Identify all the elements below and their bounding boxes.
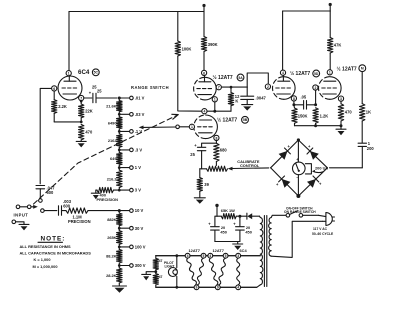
node divider top junction — [118, 97, 121, 100]
tube V3 half 12AT7 — [284, 77, 295, 100]
pin 6 of V2 (plate) — [202, 70, 207, 75]
capacitor .0047 to ground — [246, 87, 248, 96]
svg-text:5C: 5C — [94, 71, 99, 75]
node bridge top corner — [297, 138, 300, 141]
svg-text:ALL CAPACITANCE IN MICROFAR: ALL CAPACITANCE IN MICROFARADS — [20, 251, 92, 256]
wire V5 cathode down — [215, 141, 217, 144]
wire bus V5 plate / V2 cathode — [207, 110, 231, 112]
svg-text:65K 1W: 65K 1W — [221, 208, 235, 213]
svg-text:2162: 2162 — [108, 138, 117, 143]
svg-text:ON RANGE SWITCH: ON RANGE SWITCH — [284, 210, 316, 214]
resistor 21.6K (divider) — [118, 98, 120, 101]
switch contact (DC position) on lower row — [41, 209, 45, 213]
svg-text:300 V: 300 V — [135, 263, 146, 268]
resistor 88.2K (lower divider) — [118, 247, 120, 250]
capacitor .003 600 (series input) — [58, 206, 60, 216]
pin 2 of V3 (grid) — [265, 84, 270, 89]
wire 6C4 plate feed from B+ rail — [68, 12, 70, 71]
pin 4 of V3 (plate) — [280, 70, 285, 75]
svg-text:3: 3 — [237, 254, 239, 258]
svg-text:4: 4 — [237, 286, 239, 290]
node B+ right rail junction dot — [329, 6, 331, 12]
svg-text:4: 4 — [282, 71, 284, 75]
svg-text:.01 V: .01 V — [135, 96, 145, 101]
wire plate load 100K from B+ rail — [177, 12, 179, 42]
wire primary bottom return loop — [271, 221, 322, 257]
resistor 100K — [175, 41, 180, 56]
svg-text:6490: 6490 — [108, 120, 117, 125]
svg-text:265K: 265K — [107, 235, 116, 240]
wire V2 cathode to coupling — [221, 86, 247, 88]
svg-text:3 V: 3 V — [135, 188, 141, 193]
heater bottom bus — [156, 286, 257, 288]
designator 5A for V2 — [237, 74, 244, 81]
svg-text:5B: 5B — [243, 118, 248, 122]
wire bridge top to meter + — [297, 140, 299, 162]
pin 7 of 6C4 (cathode, right) — [79, 95, 84, 100]
svg-text:7: 7 — [80, 96, 82, 100]
resistor 12K (V2 cathode) — [230, 87, 232, 92]
capacitor .047 600 (AC input coupling) — [36, 185, 45, 187]
resistor 216.2 (divider) — [118, 168, 120, 171]
svg-text:30 V: 30 V — [135, 226, 144, 231]
tap 3 V of range switch — [119, 189, 129, 191]
capacitor 25 electrolytic bypass — [202, 143, 217, 147]
transformer primary winding (right) — [269, 218, 272, 257]
svg-text:6C4: 6C4 — [240, 248, 248, 253]
input ground terminal — [12, 220, 16, 224]
pin 1 of 6C4 (plate, top) — [66, 71, 71, 76]
svg-text:8: 8 — [293, 97, 295, 101]
wire V2 pin1 down to bus — [214, 102, 216, 111]
resistor 390K — [201, 37, 206, 52]
tap .01 V of range switch — [119, 97, 129, 99]
wire output node down from M — [361, 72, 363, 104]
wire cap to bridge right corner — [330, 167, 363, 169]
svg-text:3: 3 — [340, 97, 342, 101]
wire secondary top to rectifier — [259, 216, 262, 217]
meter bracket and label 200 UA — [305, 164, 311, 174]
svg-text:117 V AC: 117 V AC — [313, 227, 328, 231]
pin 5 heater V first — [201, 253, 206, 258]
svg-text:9: 9 — [217, 286, 219, 290]
node B+ riser dot — [215, 204, 218, 207]
svg-text:25: 25 — [190, 152, 195, 157]
bridge rectifier diamond — [298, 140, 327, 168]
svg-text:47: 47 — [159, 259, 163, 263]
wire B+ rail right — [283, 10, 331, 12]
svg-text:470: 470 — [85, 129, 93, 134]
ground below .0047 — [242, 104, 253, 106]
svg-text:LIGHT: LIGHT — [165, 265, 175, 269]
tap 100 V of range switch — [119, 246, 129, 248]
wire V2 cathode jog to V3 grid — [247, 73, 268, 87]
svg-text:½ 12AT7: ½ 12AT7 — [217, 116, 237, 123]
pin of V5 plate (top) — [202, 109, 207, 114]
node hum balance center tap — [155, 270, 157, 274]
ground below 39 — [199, 191, 201, 197]
svg-text:.3 V: .3 V — [135, 148, 143, 153]
pin 8 of V3 (cathode) — [291, 96, 296, 101]
heater top bus — [156, 255, 260, 257]
svg-text:NOTE:: NOTE: — [41, 235, 66, 242]
svg-text:88.2K: 88.2K — [106, 254, 117, 259]
pin 3 of V4 (cathode) — [338, 96, 343, 101]
svg-text:882K: 882K — [107, 217, 116, 222]
svg-text:47K: 47K — [334, 43, 342, 48]
resistor 882K (lower divider) — [118, 211, 120, 214]
svg-text:½ 12AT7: ½ 12AT7 — [337, 66, 357, 73]
node B+ left rail junction dot — [203, 7, 205, 12]
wire V3 cathode down — [293, 101, 295, 105]
wire 100K to V5 plate — [178, 56, 202, 111]
pin 3 heater 6C4 — [236, 253, 241, 258]
resistor 1.2K (V4 grid leak) — [315, 107, 317, 109]
svg-text:½ 12AT7: ½ 12AT7 — [290, 70, 310, 77]
resistor 6490 (divider) — [118, 114, 120, 117]
transformer T1 secondary winding (left) — [260, 218, 263, 285]
rectifier diode — [247, 213, 252, 219]
filament wire pin5 to pin9 second — [219, 258, 226, 285]
svg-text:2: 2 — [267, 85, 269, 89]
tube V5 half 12AT7 — [206, 115, 218, 139]
tap 300 V of range switch — [119, 265, 129, 267]
resistor 150K (V3 cathode) — [293, 105, 296, 108]
resistor 680 (V5 cathode) — [214, 143, 219, 161]
node bridge bottom corner (B+ net dot) — [296, 194, 300, 198]
ground at hum balance — [142, 273, 151, 275]
resistor 47K plate load — [329, 11, 331, 38]
AC line plug — [318, 215, 326, 216]
svg-text:2.2K: 2.2K — [58, 104, 67, 109]
svg-text:9: 9 — [196, 286, 198, 290]
tube V4 half 12AT7 — [330, 77, 341, 100]
wire cathode ground bus — [295, 125, 342, 127]
resistor 265K (lower divider) — [118, 228, 120, 231]
pin 4 heater second — [208, 253, 213, 258]
tap 1 V of range switch — [119, 167, 129, 169]
svg-text:10 V: 10 V — [135, 208, 144, 213]
ground below filter caps — [237, 242, 239, 244]
svg-text:6C4: 6C4 — [78, 69, 90, 76]
switch contact at V5 grid — [176, 125, 180, 129]
designator 5B for V5 — [242, 116, 249, 123]
pin 1 of V2 — [212, 97, 217, 102]
designator 5D for V3 — [313, 70, 320, 77]
svg-text:22K: 22K — [85, 108, 93, 113]
svg-text:5: 5 — [225, 254, 227, 258]
svg-text:200 UA: 200 UA — [315, 165, 328, 170]
pin of V5 cathode (bottom right) — [214, 135, 219, 140]
filament wire pin4 to pin9 second — [209, 258, 218, 285]
pin 9 heater return first — [194, 285, 199, 290]
tap .3 V of range switch — [119, 149, 129, 151]
pin 1 of V4 (plate) — [327, 70, 332, 75]
resistor 649 (divider) — [118, 150, 120, 153]
svg-text:4: 4 — [203, 110, 205, 114]
pin of V5 grid (left) — [189, 124, 194, 129]
wire cathode network bus — [54, 121, 81, 123]
svg-text:1.2K: 1.2K — [320, 114, 329, 119]
svg-text:216.2: 216.2 — [107, 176, 118, 181]
svg-text:½ 12AT7: ½ 12AT7 — [213, 74, 233, 81]
pilot light lamp — [176, 256, 178, 268]
resistor 65K 1W filter — [217, 215, 221, 217]
svg-text:4: 4 — [187, 254, 189, 258]
ground symbol at input — [19, 223, 29, 225]
resistor 470 to ground — [79, 124, 84, 139]
svg-text:4: 4 — [209, 254, 211, 258]
svg-text:2: 2 — [314, 86, 316, 90]
svg-text:5A: 5A — [238, 76, 243, 80]
wire secondary bottom to heater return — [156, 285, 260, 288]
tap 30 V of range switch — [119, 227, 129, 229]
svg-text:649: 649 — [110, 156, 117, 161]
capacitor 25/25 electrolytic coupling — [92, 93, 94, 102]
svg-text:.03 V: .03 V — [135, 112, 145, 117]
wire secondary 6.3V tap to heater bus — [156, 255, 260, 257]
svg-text:21.6K: 21.6K — [106, 104, 117, 109]
filament wire 6C4 pin3 to pin4 — [237, 258, 240, 285]
svg-text:5: 5 — [203, 254, 205, 258]
meter 200 UA — [293, 162, 306, 175]
svg-text:1: 1 — [214, 98, 216, 102]
ground below 470 — [80, 140, 82, 141]
wire meter - to bridge bottom — [297, 175, 299, 196]
capacitor .05 coupling to V4 grid — [294, 104, 303, 106]
resistor 1.1M PRECISION — [62, 210, 67, 212]
svg-text:1: 1 — [68, 72, 70, 76]
pin 6 of 6C4 (grid, left) — [52, 86, 57, 91]
resistor 47 hum balance upper — [155, 256, 157, 259]
ground below cathode bus — [340, 126, 342, 129]
svg-text:INPUT: INPUT — [14, 213, 29, 218]
svg-text:ALL RESISTANCE IN OHMS: ALL RESISTANCE IN OHMS — [20, 244, 71, 249]
svg-text:25: 25 — [97, 88, 102, 93]
pin 4 heater V first — [185, 253, 190, 258]
resistor 28.2K (lower divider) — [118, 266, 120, 269]
diode upper-right of bridge — [310, 151, 319, 160]
svg-text:M: M — [361, 67, 364, 71]
svg-text:8: 8 — [215, 136, 217, 140]
wire calibrate wiper to bridge — [232, 167, 269, 170]
wire primary top to on-off switch — [271, 215, 286, 217]
capacitor 1/200 (meter blocking) — [361, 121, 363, 143]
node filter junction — [236, 215, 246, 217]
tube V2 half 12AT7 — [205, 77, 216, 100]
svg-text:7: 7 — [218, 86, 220, 90]
svg-text:1K: 1K — [366, 109, 371, 114]
wire filter cap ground bus — [215, 241, 240, 243]
designator circle 5C for 6C4 — [92, 69, 99, 76]
dashed mechanical linkage of range switch — [34, 116, 177, 205]
svg-text:680: 680 — [220, 148, 228, 153]
svg-text:K: K — [235, 98, 238, 103]
svg-text:450: 450 — [220, 230, 227, 235]
svg-text:12AT7: 12AT7 — [213, 248, 224, 253]
pin 5 heater second — [223, 253, 228, 258]
input selector switch arm with arrow — [16, 205, 20, 209]
diode upper-left of bridge — [279, 151, 288, 160]
svg-text:.0047: .0047 — [256, 96, 267, 101]
filament wire pin4 to pin9 first — [187, 258, 197, 285]
wire 390K to V2 plate — [203, 52, 205, 71]
switch ON-OFF on range switch — [286, 214, 290, 218]
pin 2 of V4 (grid) — [313, 85, 318, 90]
wire 6C4 grid to input coupling — [40, 88, 51, 183]
svg-text:12AT7: 12AT7 — [189, 248, 200, 253]
svg-text:K = 1,000: K = 1,000 — [34, 257, 51, 262]
diode lower-right of bridge — [307, 179, 316, 188]
svg-text:1 V: 1 V — [135, 165, 141, 170]
svg-text:6: 6 — [203, 71, 205, 75]
svg-text:470: 470 — [345, 109, 353, 114]
svg-text:RANGE SWITCH: RANGE SWITCH — [131, 85, 169, 90]
svg-text:200: 200 — [367, 146, 375, 151]
tap 10 V of range switch — [119, 210, 129, 212]
diode lower-left of bridge — [282, 179, 291, 188]
transformer core — [263, 216, 265, 287]
designator M for V4 output node — [359, 65, 366, 72]
pin 7 of V2 (cathode) — [216, 85, 221, 90]
svg-text:1: 1 — [329, 71, 331, 75]
wire 6C4 cathode to electrolytic — [84, 97, 92, 99]
svg-text:PRECISION: PRECISION — [68, 219, 91, 224]
resistor 470 (V4 cathode) — [340, 101, 342, 104]
tap .1 V of range switch — [119, 130, 129, 132]
svg-text:150K: 150K — [298, 114, 308, 119]
wire 1.1M to divider chain — [88, 210, 119, 212]
svg-text:5D: 5D — [314, 72, 319, 76]
svg-text:CONTROL: CONTROL — [240, 163, 260, 168]
pin 4 heater return 6C4 — [236, 285, 241, 290]
ground for 400 precision — [96, 190, 97, 193]
pin 9 heater return second — [215, 285, 220, 290]
svg-text:50–60 CYCLE: 50–60 CYCLE — [312, 232, 334, 236]
svg-text:28.2K: 28.2K — [106, 273, 117, 278]
svg-text:47: 47 — [159, 275, 163, 279]
svg-text:100K: 100K — [182, 47, 192, 52]
svg-text:6: 6 — [53, 87, 55, 91]
ground at bottom of divider — [113, 285, 127, 287]
resistor 2.2K (grid bias) — [53, 91, 55, 100]
resistor 47 hum balance lower — [153, 274, 158, 285]
filament wire pin5 to pin9 first — [197, 258, 203, 285]
tube V1 6C4 — [58, 76, 82, 100]
svg-text:390K: 390K — [208, 42, 218, 47]
capacitor 20/450 filter (first) — [215, 216, 217, 226]
switch contact (AC position) — [39, 199, 43, 203]
wire plate load 390K from B+ rail — [203, 12, 205, 37]
resistor 1K (meter series) — [360, 104, 365, 121]
wire switch contact to V5 grid — [179, 126, 189, 128]
resistor 400 PRECISION to ground — [97, 187, 114, 192]
resistor 22K (6C4 cathode load) — [80, 100, 83, 103]
range switch wiper arrow to .1V tap — [144, 126, 176, 128]
svg-text:M = 1,000,000: M = 1,000,000 — [33, 264, 58, 269]
svg-text:.05: .05 — [301, 95, 307, 100]
wire B+ rail left (plate supply bus) — [69, 11, 204, 13]
svg-text:1: 1 — [191, 125, 193, 129]
node lower divider top junction — [118, 209, 121, 212]
capacitor 20/450 filter (second) — [239, 216, 241, 226]
potentiometer CALIBRATE CONTROL — [215, 162, 217, 166]
svg-text:100 V: 100 V — [135, 245, 146, 250]
svg-text:450: 450 — [245, 230, 252, 235]
svg-text:PRECISION: PRECISION — [97, 197, 119, 202]
resistor 39 to ground — [199, 169, 201, 178]
resistor 2162 (divider) — [118, 131, 120, 134]
wire .05 cap up to V4 grid pin — [315, 90, 317, 105]
wire V3 plate feed from B+ rail — [282, 11, 284, 70]
tap .03 V of range switch — [119, 113, 129, 115]
svg-text:39: 39 — [204, 182, 209, 187]
